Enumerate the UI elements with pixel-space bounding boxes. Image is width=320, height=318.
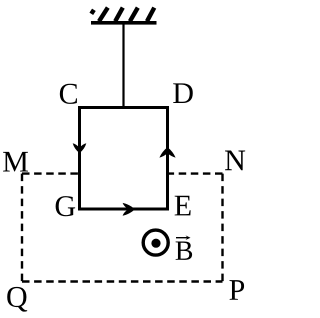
dashed region side MN (top, left part M to loop): [22, 172, 79, 174]
current arrow on bottom edge GE (rightward): [123, 203, 135, 216]
label G: [56, 196, 75, 216]
vector arrow over B: [176, 237, 188, 239]
label Q: [7, 287, 27, 312]
square loop CDEG: [80, 108, 168, 210]
current arrow on left edge CG (downward): [73, 143, 87, 153]
dashed region side QP (bottom): [22, 280, 223, 282]
ceiling hatch marks: [91, 8, 154, 22]
label N: [225, 151, 245, 171]
label D: [173, 83, 193, 103]
dashed region side MN (top, right part loop to N): [167, 172, 223, 174]
label M: [3, 152, 28, 172]
string from ceiling to loop: [122, 24, 124, 107]
dashed region side MQ (left): [21, 174, 23, 282]
label B: [176, 241, 193, 259]
dashed region side NP (right): [221, 174, 223, 282]
label P: [229, 280, 244, 300]
label C: [60, 84, 77, 104]
label E: [175, 196, 191, 216]
ceiling support bar: [91, 21, 157, 25]
field symbol: circle with dot (B out of page): [143, 230, 168, 255]
current arrow on right edge ED (upward): [159, 147, 175, 157]
